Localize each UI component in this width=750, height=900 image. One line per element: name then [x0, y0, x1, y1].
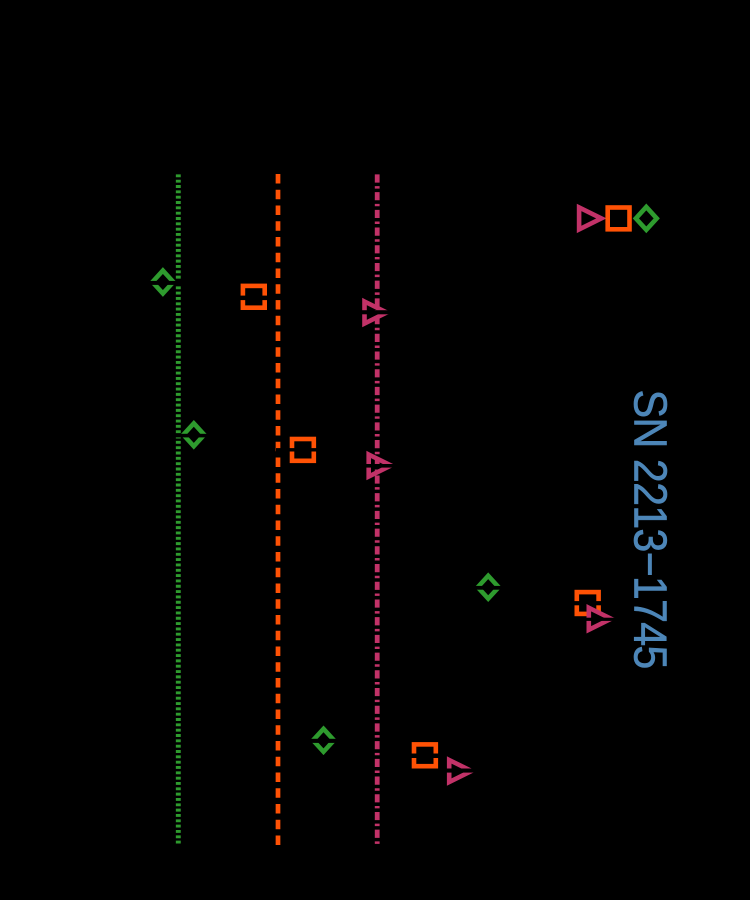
legend: green diamond [636, 207, 657, 230]
green dotted model line [176, 174, 181, 845]
green diamond markers [152, 271, 498, 752]
orange dashed model line [276, 174, 281, 846]
svg-text:SN 2213−1745: SN 2213−1745 [624, 390, 676, 669]
pink dash-dot model line [375, 174, 380, 844]
green error bands (black) [138, 281, 514, 743]
pink triangle markers [365, 302, 612, 783]
pink error bands (black) [348, 310, 626, 772]
orange square markers [243, 286, 599, 766]
orange error bands (black) [228, 296, 614, 758]
legend: pink triangle [579, 207, 601, 229]
legend: orange square [608, 208, 630, 230]
